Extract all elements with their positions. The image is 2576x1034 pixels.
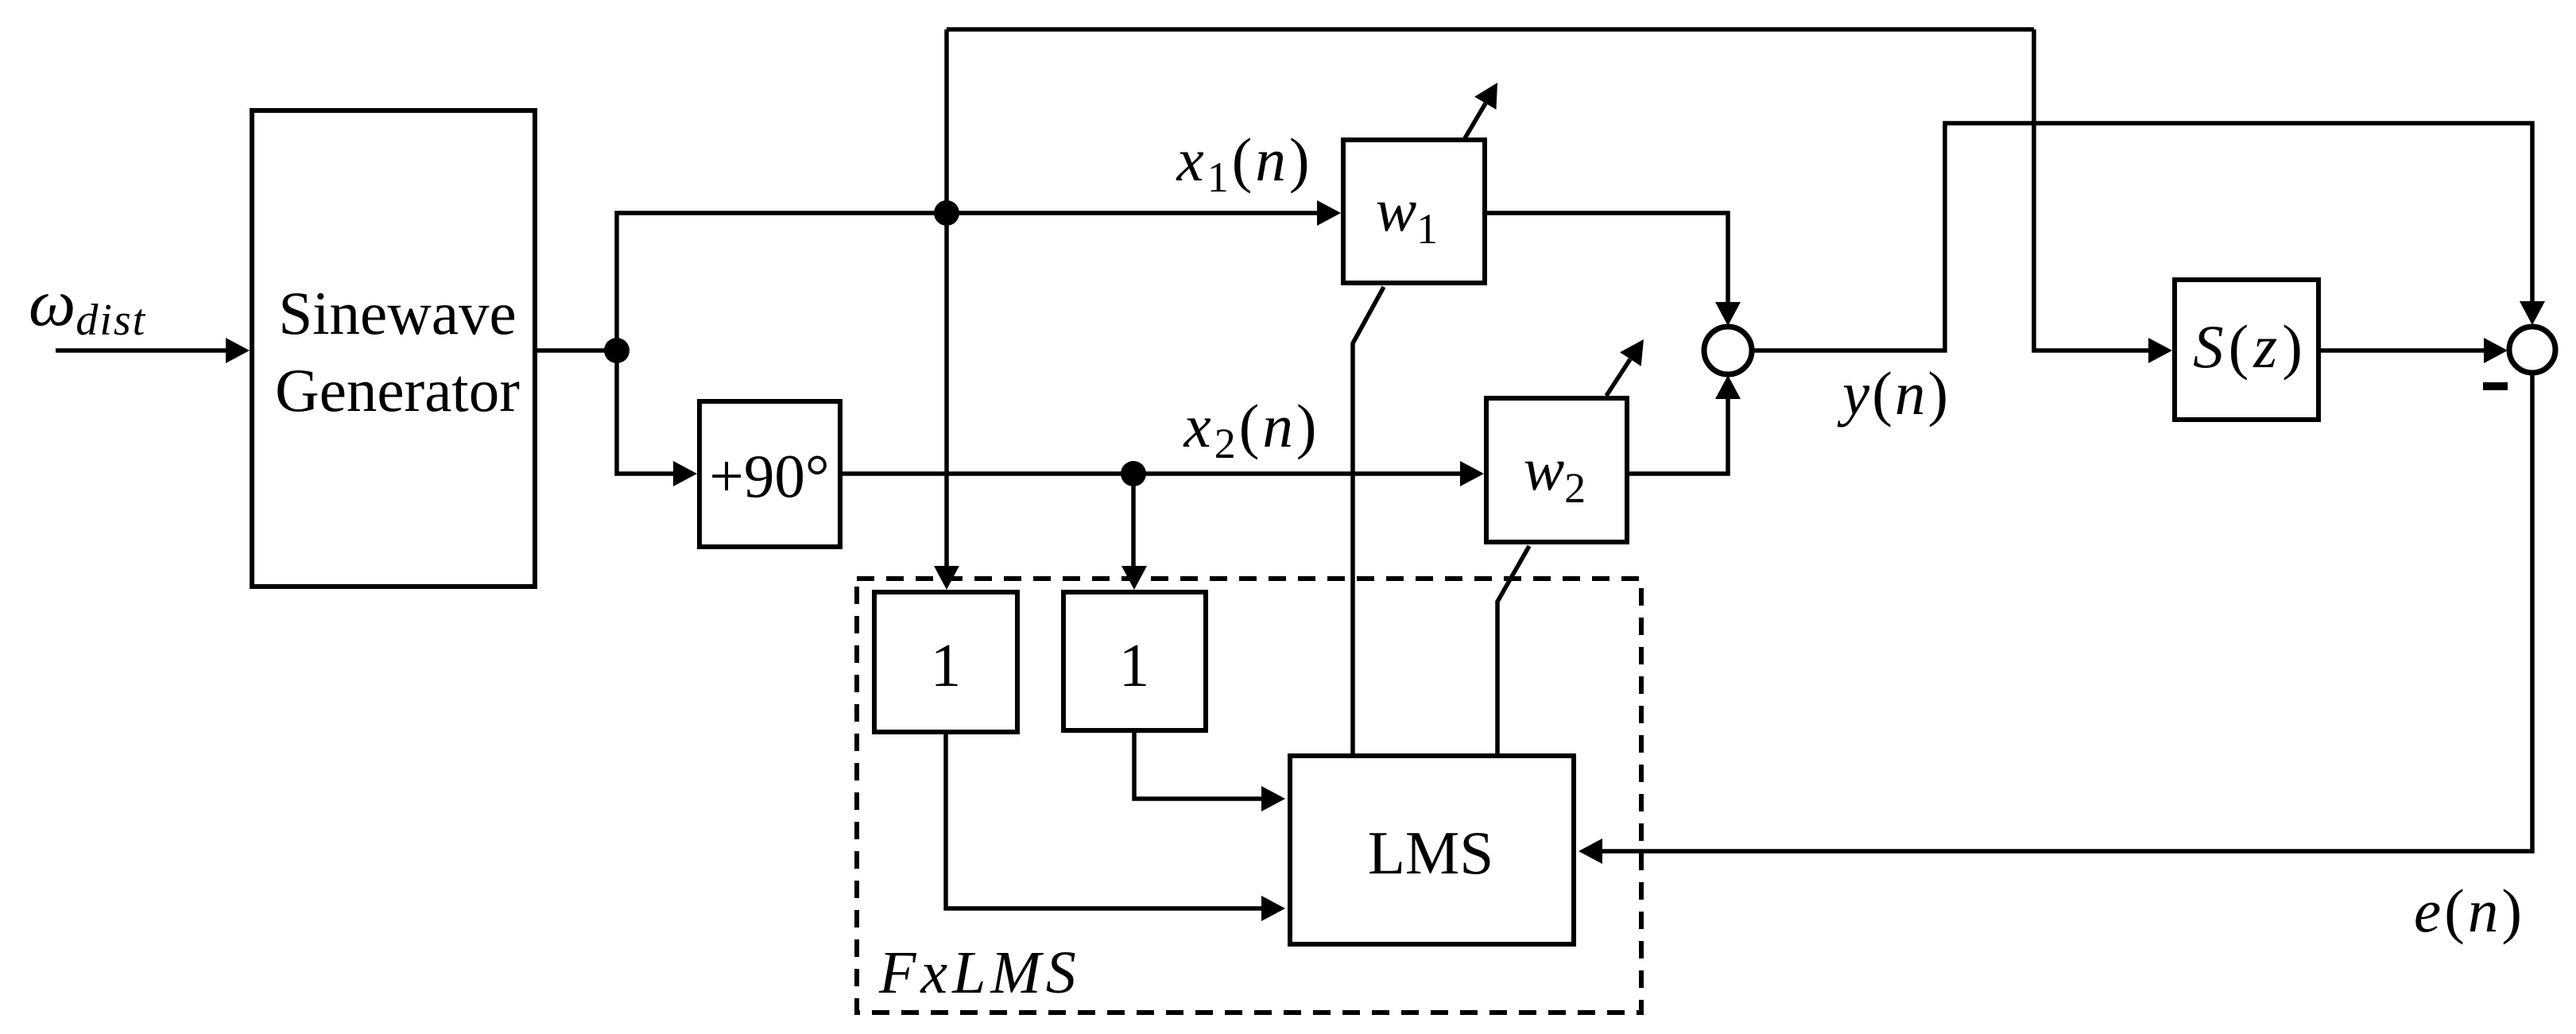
wire: omega_dist input into Sinewave Generator bbox=[56, 348, 229, 353]
block: +90 degree phase shifter bbox=[699, 401, 840, 547]
svg-text:+90°: +90° bbox=[709, 442, 829, 510]
svg-text:Generator: Generator bbox=[275, 356, 520, 424]
wire: x2 rail from +90 output into w2 bbox=[843, 471, 1463, 476]
svg-text:x1(n): x1(n) bbox=[1176, 126, 1313, 201]
wire: node A up and right to node B (x1 rail) bbox=[617, 213, 947, 350]
block: secondary path model 1 (right) bbox=[1063, 592, 1206, 730]
block: secondary path model 1 (left) bbox=[874, 592, 1017, 732]
dashed FxLMS boundary box bbox=[857, 579, 1641, 1013]
wire: LMS weight update up to w2 bbox=[1497, 546, 1529, 753]
wire: w1 output down into summer bbox=[1487, 213, 1728, 307]
block: secondary path S(z) bbox=[2175, 280, 2318, 420]
wire: left 1-block output to LMS lower input bbox=[946, 734, 1265, 908]
wire: top rail across to the right bbox=[947, 27, 2034, 32]
summer junction circle bbox=[1704, 327, 1752, 374]
svg-text:FxLMS: FxLMS bbox=[878, 939, 1081, 1006]
w1 adaptation arrow (adjustable symbol) bbox=[1465, 103, 1486, 138]
svg-text:1: 1 bbox=[931, 631, 962, 699]
wire: LMS weight update up to w1 bbox=[1353, 287, 1384, 753]
block: adaptive weight w2 bbox=[1486, 398, 1627, 542]
node C: x2 branch junction bbox=[1121, 461, 1146, 486]
wire: error e(n) from subtractor down and left into LMS bbox=[1599, 372, 2532, 851]
wire: x2 tap from node C down into right 1-block bbox=[1131, 474, 1136, 567]
svg-text:x2(n): x2(n) bbox=[1183, 392, 1320, 467]
w2 adaptation arrow (adjustable symbol) bbox=[1606, 359, 1630, 396]
node B: x1 branch junction bbox=[934, 200, 959, 226]
svg-text:Sinewave: Sinewave bbox=[278, 279, 516, 347]
subtractor junction circle bbox=[2509, 327, 2555, 373]
wire: summer output y(n) up over and down into subtractor top bbox=[1750, 123, 2532, 350]
wire: top rail down and right into S(z) bbox=[2034, 29, 2152, 350]
wire: generator output to node A bbox=[537, 348, 617, 353]
svg-text:e(n): e(n) bbox=[2414, 877, 2525, 945]
wire: node A down and right into +90 block bbox=[617, 350, 676, 474]
block: Sinewave Generator U1 bbox=[252, 110, 535, 587]
svg-text:LMS: LMS bbox=[1368, 819, 1493, 887]
svg-text:S(z): S(z) bbox=[2193, 312, 2307, 381]
wire: S(z) output into subtractor bbox=[2321, 348, 2487, 353]
block: adaptive weight w1 bbox=[1343, 140, 1485, 283]
block: LMS algorithm bbox=[1290, 756, 1574, 944]
wire: riser from node B up to top rail bbox=[944, 29, 949, 213]
svg-text:y(n): y(n) bbox=[1837, 359, 1950, 428]
wire: x1 tap from node B down into left 1-block bbox=[944, 213, 949, 567]
wire: right 1-block output to LMS upper input bbox=[1134, 733, 1265, 799]
svg-text:1: 1 bbox=[1119, 631, 1150, 699]
label minus sign bbox=[2483, 382, 2508, 390]
node A: generator output junction bbox=[604, 338, 629, 363]
wire: x1 rail from node B into w1 bbox=[947, 211, 1320, 215]
wire: w2 output up into summer bbox=[1629, 397, 1728, 474]
